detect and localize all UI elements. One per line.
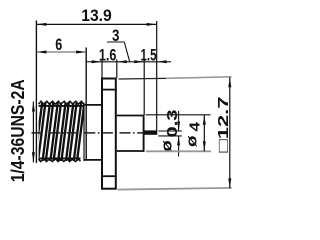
dim 6 left arrow [36,51,46,54]
flange hole line lower [101,175,117,177]
flange right extension line [116,59,118,78]
dia 4 dimension line [203,115,205,152]
arrow at flange right pointing left [117,60,127,63]
svg-text:1.5: 1.5 [141,45,157,64]
square 12.7 top extension line [119,77,167,80]
arrow at flange left pointing right [92,60,102,63]
thread minor diameter lines [39,105,84,107]
dim 6 right arrow [76,51,86,54]
thread end line [83,103,85,161]
body top line thread end to flange [84,104,102,106]
center pin [145,130,158,134]
square 12.7 dimension line [229,77,231,188]
dia 4 bottom extension line gray [146,150,211,152]
dim 13.9 right arrow [147,23,157,26]
thread crest top scallops [39,101,84,104]
flange outline [102,79,116,189]
post outline [117,115,144,117]
svg-text:4: 4 [186,121,203,131]
post right face [143,115,145,152]
svg-text:□12.7: □12.7 [215,97,232,153]
dim 13.9 left arrow [36,23,46,26]
right extension line (13.9 / 1.5) [156,21,158,130]
flange hole line upper [101,89,117,91]
thread callout dimension line [32,102,34,163]
post face extension line [143,59,145,115]
thread hatch flanks [34,103,86,162]
dia 0.3 dimension line upper segment [178,111,180,131]
thread runout step / 6mm extension line [85,48,87,161]
svg-text:1/4-36UNS-2A: 1/4-36UNS-2A [8,79,28,182]
svg-text:1.6: 1.6 [99,45,117,64]
body bottom line thread end to flange [84,159,102,161]
thread crest bottom scallops [39,159,81,162]
dia 0.3 dimension line lower segment [178,136,180,157]
barrel left face and extension line for 13.9/6 [35,21,37,164]
dim 6 line [36,51,86,53]
svg-text:ø: ø [183,134,200,147]
dim 13.9 line [36,23,156,25]
svg-text:0.3: 0.3 [164,110,181,138]
pin bottom extension line [158,135,182,137]
chain dim line 1.6 / 3 / 1.5 [87,61,171,63]
svg-text:13.9: 13.9 [81,6,112,25]
svg-text:ø: ø [158,139,175,152]
arrow at post face pointing right [134,60,144,63]
dia 4 top extension line [146,114,211,116]
arrow at pin tip ext pointing left [157,60,167,63]
flange left extension line [101,59,103,78]
pin top extension line [158,130,182,132]
square 12.7 bottom extension line gray [118,188,232,190]
centerline dash-dot [32,132,145,134]
svg-text:6: 6 [55,35,62,54]
